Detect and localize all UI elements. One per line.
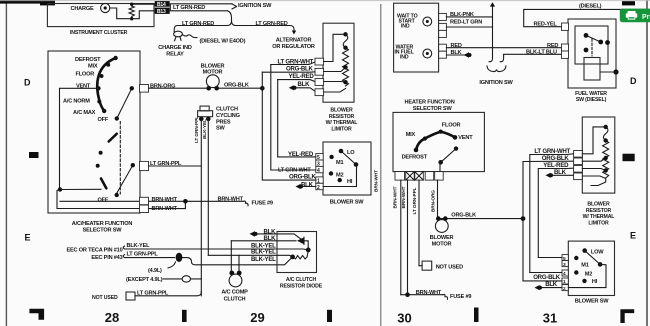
svg-text:M1: M1 <box>336 160 343 166</box>
svg-text:ORG-BLK: ORG-BLK <box>451 212 476 218</box>
svg-text:NOT USED: NOT USED <box>92 295 118 301</box>
svg-text:M2: M2 <box>336 172 343 178</box>
svg-text:YEL-RED: YEL-RED <box>289 73 315 80</box>
svg-text:5: 5 <box>563 256 566 262</box>
svg-text:BLK-LT BLU: BLK-LT BLU <box>526 50 557 56</box>
svg-text:EEC PIN #43: EEC PIN #43 <box>91 255 122 261</box>
svg-text:(DIESEL W/ E4OD): (DIESEL W/ E4OD) <box>200 39 246 45</box>
svg-text:LT GRN-RED: LT GRN-RED <box>173 5 205 11</box>
svg-text:(4.9L): (4.9L) <box>148 268 162 274</box>
svg-text:LT GRN-PPL: LT GRN-PPL <box>412 187 418 214</box>
svg-text:RELAY: RELAY <box>166 51 184 57</box>
svg-text:5: 5 <box>317 155 320 161</box>
svg-text:A/C NORM: A/C NORM <box>63 98 90 104</box>
svg-text:(EXCEPT 4.9L): (EXCEPT 4.9L) <box>126 277 163 283</box>
svg-text:BLOWER: BLOWER <box>587 202 610 208</box>
svg-text:SELECTOR SW: SELECTOR SW <box>83 227 123 233</box>
svg-text:31: 31 <box>543 311 557 326</box>
svg-text:ORG-BLK: ORG-BLK <box>286 65 314 72</box>
svg-text:IGNITION SW: IGNITION SW <box>479 80 513 86</box>
svg-text:BLOWER: BLOWER <box>430 235 454 241</box>
svg-text:DEFROST: DEFROST <box>75 57 101 63</box>
svg-text:LT GRN-PPL: LT GRN-PPL <box>127 252 159 258</box>
svg-text:3: 3 <box>317 162 320 168</box>
svg-text:ALTERNATOR: ALTERNATOR <box>276 38 312 44</box>
svg-text:IGNITION SW: IGNITION SW <box>238 3 272 9</box>
svg-text:LO: LO <box>347 150 355 156</box>
svg-text:CYCLING: CYCLING <box>216 113 240 119</box>
svg-text:MIX: MIX <box>88 63 98 69</box>
svg-text:B13: B13 <box>157 9 166 15</box>
svg-text:A/C COMP: A/C COMP <box>221 290 248 296</box>
svg-text:FUSE #9: FUSE #9 <box>252 201 273 207</box>
svg-text:A/C/HEATER FUNCTION: A/C/HEATER FUNCTION <box>72 221 133 227</box>
svg-text:30: 30 <box>397 311 411 326</box>
svg-text:CLUTCH: CLUTCH <box>216 107 238 113</box>
svg-text:3: 3 <box>563 262 566 268</box>
svg-text:BLOWER: BLOWER <box>201 63 225 69</box>
svg-text:RESISTOR DIODE: RESISTOR DIODE <box>280 283 323 289</box>
svg-text:FLOOR: FLOOR <box>442 122 461 128</box>
svg-text:4: 4 <box>317 168 320 174</box>
svg-text:D: D <box>630 76 637 86</box>
svg-text:D: D <box>24 78 31 88</box>
svg-text:BLOWER SW: BLOWER SW <box>575 299 610 305</box>
svg-text:28: 28 <box>105 310 119 325</box>
svg-text:CHARGE: CHARGE <box>71 6 95 12</box>
svg-text:RED-YEL: RED-YEL <box>534 22 558 28</box>
svg-text:E: E <box>630 231 636 241</box>
svg-text:LOW: LOW <box>591 249 604 255</box>
svg-text:OFF: OFF <box>98 198 109 204</box>
svg-text:BLK-YEL: BLK-YEL <box>251 249 276 256</box>
svg-text:BLOWER SW: BLOWER SW <box>330 200 365 206</box>
svg-text:LIMITOR: LIMITOR <box>331 126 352 132</box>
svg-text:W/ THERMAL: W/ THERMAL <box>326 120 359 126</box>
svg-text:M2: M2 <box>585 271 592 277</box>
svg-text:VENT: VENT <box>458 135 473 141</box>
svg-text:HI: HI <box>592 279 598 285</box>
svg-text:4: 4 <box>563 271 566 277</box>
svg-text:INSTRUMENT CLUSTER: INSTRUMENT CLUSTER <box>70 30 128 36</box>
svg-text:1: 1 <box>563 279 566 285</box>
svg-text:IND: IND <box>401 24 410 30</box>
svg-text:W/ THERMAL: W/ THERMAL <box>583 214 616 220</box>
svg-text:BRN-WHT: BRN-WHT <box>416 290 442 296</box>
svg-text:BRN-WHT: BRN-WHT <box>401 186 407 208</box>
svg-text:B14: B14 <box>157 2 166 8</box>
svg-text:M1: M1 <box>581 263 588 269</box>
svg-text:BRN-ORG: BRN-ORG <box>431 190 437 212</box>
svg-text:OFF: OFF <box>98 117 109 123</box>
svg-text:SW (DIESEL): SW (DIESEL) <box>576 97 607 103</box>
svg-text:CHARGE IND: CHARGE IND <box>158 45 192 51</box>
svg-text:MOTOR: MOTOR <box>432 242 452 248</box>
svg-text:LT GRN-RED: LT GRN-RED <box>182 21 214 27</box>
svg-text:BLOWER: BLOWER <box>330 108 353 114</box>
svg-text:HEATER FUNCTION: HEATER FUNCTION <box>405 100 455 106</box>
svg-text:BRN-WHT: BRN-WHT <box>152 197 178 203</box>
svg-text:RESISTOR: RESISTOR <box>329 114 355 120</box>
svg-text:IND: IND <box>400 55 409 61</box>
svg-text:2: 2 <box>317 185 320 191</box>
svg-text:OR REGULATOR: OR REGULATOR <box>272 44 315 50</box>
svg-text:FLOOR: FLOOR <box>76 71 95 77</box>
svg-text:BLK-YEL: BLK-YEL <box>251 256 276 263</box>
svg-text:ORG-BLK: ORG-BLK <box>224 83 249 89</box>
svg-text:RED: RED <box>547 43 558 49</box>
svg-text:BLK-YEL: BLK-YEL <box>202 119 208 139</box>
svg-text:EEC OR TECA PIN #10: EEC OR TECA PIN #10 <box>67 247 123 253</box>
svg-text:BRN-WHT: BRN-WHT <box>374 170 380 192</box>
svg-text:NOT USED: NOT USED <box>436 264 463 270</box>
svg-text:(DIESEL): (DIESEL) <box>579 4 602 10</box>
svg-text:PRES: PRES <box>216 119 231 125</box>
svg-text:BLK: BLK <box>298 81 311 88</box>
svg-text:E: E <box>25 233 31 243</box>
svg-text:BRN-WHT: BRN-WHT <box>218 197 244 203</box>
svg-text:BRN-WHT: BRN-WHT <box>393 186 399 208</box>
svg-text:A/C CLUTCH: A/C CLUTCH <box>286 277 317 283</box>
svg-text:1: 1 <box>317 179 320 185</box>
svg-text:MIX: MIX <box>406 132 416 138</box>
svg-text:Pri: Pri <box>642 14 650 21</box>
svg-text:BLK-YEL: BLK-YEL <box>127 243 151 249</box>
svg-text:2: 2 <box>563 286 566 292</box>
svg-text:MOTOR: MOTOR <box>203 69 223 75</box>
svg-text:CLUTCH: CLUTCH <box>224 297 246 303</box>
svg-text:BLK: BLK <box>301 181 314 188</box>
svg-text:SW: SW <box>216 126 226 132</box>
svg-text:RED-LT GRN: RED-LT GRN <box>450 20 482 26</box>
svg-text:29: 29 <box>250 310 264 325</box>
svg-text:DEFROST: DEFROST <box>402 155 428 161</box>
svg-text:LIMITOR: LIMITOR <box>588 220 609 226</box>
svg-text:HI: HI <box>347 179 353 185</box>
svg-text:ORG-BLK: ORG-BLK <box>533 274 561 281</box>
svg-text:BLK: BLK <box>545 281 558 288</box>
svg-text:FUSE #9: FUSE #9 <box>450 294 471 300</box>
svg-text:LT GRN-RED: LT GRN-RED <box>256 21 288 27</box>
svg-text:A/C MAX: A/C MAX <box>73 110 96 116</box>
svg-text:LT GRN-PPL: LT GRN-PPL <box>194 116 200 143</box>
svg-text:RESISTOR: RESISTOR <box>586 208 612 214</box>
svg-text:SELECTOR SW: SELECTOR SW <box>413 106 453 112</box>
